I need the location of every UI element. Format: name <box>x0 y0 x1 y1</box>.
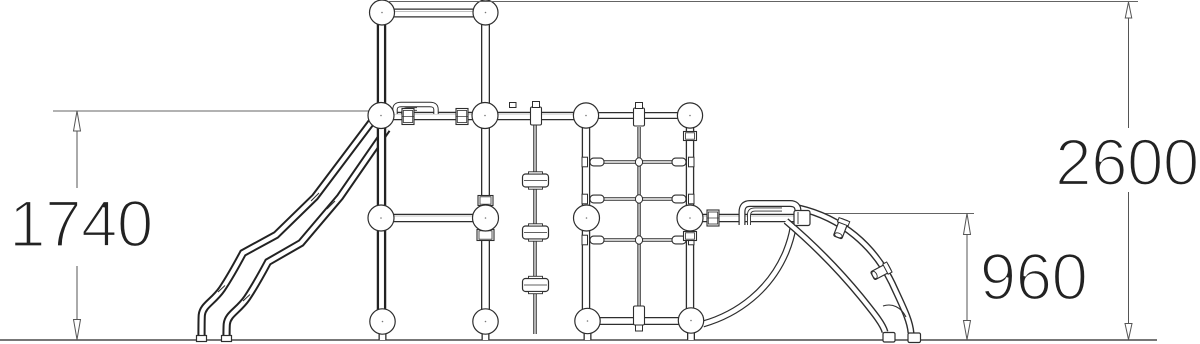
net rod knot 2 <box>635 195 642 203</box>
net rod knot 1 <box>635 158 642 166</box>
dimension text 960 <box>980 240 1088 313</box>
clamp rear post upper <box>478 196 493 206</box>
tower rear post <box>481 13 490 321</box>
net left post <box>582 116 591 322</box>
arch handle inner line <box>749 210 782 226</box>
disc 2 <box>523 224 549 241</box>
foot stub net left <box>584 330 592 340</box>
ball mid net-right <box>677 205 703 231</box>
arch peg lower <box>870 262 892 281</box>
slide foot cap left <box>197 336 207 342</box>
dimension line 2600 <box>1125 2 1132 340</box>
clamp rear post lower <box>477 230 494 241</box>
reference line 1740 level <box>53 110 381 112</box>
disc 1 <box>523 172 549 189</box>
ball platform rear <box>472 103 498 129</box>
platform bar <box>381 114 586 116</box>
net right post <box>686 116 695 321</box>
net top bar <box>586 112 690 119</box>
arch rail cap far <box>908 333 921 343</box>
clamp right post below platform <box>684 132 697 141</box>
ball ground rear <box>473 309 498 334</box>
tower front post (heavy) <box>377 13 387 321</box>
ball platform front <box>368 103 394 129</box>
bolt on platform bar <box>510 103 517 108</box>
net middle rod <box>638 127 640 308</box>
slide rail right <box>227 129 388 339</box>
clamp right post below mid ball <box>684 232 697 241</box>
arch rail cap near <box>883 333 895 343</box>
dimension line 1740 <box>74 111 81 340</box>
arch bar sleeve <box>794 211 810 226</box>
clamp on arch bar <box>707 210 719 226</box>
svg-text:2600: 2600 <box>1055 126 1199 199</box>
svg-text:1740: 1740 <box>9 187 153 260</box>
ball platform net-left <box>573 103 598 128</box>
foot stub tower rear <box>482 330 490 340</box>
clamp platform bar 1 <box>402 109 414 125</box>
ball mid rear <box>473 205 499 231</box>
dimension line 960 <box>964 214 971 340</box>
net rung 2 <box>582 194 694 204</box>
dimension text 2600 <box>1055 126 1199 199</box>
arch handle loop <box>742 204 798 226</box>
middle bar tower <box>381 216 486 218</box>
ball mid net-left <box>574 205 600 231</box>
slide rail joint ticks <box>218 193 335 301</box>
ball top rear <box>473 0 498 25</box>
tower top bar <box>382 12 486 14</box>
slide entry handle loop <box>395 105 436 115</box>
slide entry inner elbow <box>403 109 417 114</box>
ball ground front <box>370 309 395 334</box>
ball ground net-left <box>575 308 600 333</box>
disc pole hanger clamp <box>531 102 542 126</box>
dimension text 1740 <box>9 187 153 260</box>
net rod top clamp <box>634 103 645 127</box>
top reference line (2600 level) <box>388 1 1138 3</box>
top reference line overlay <box>388 1 1138 3</box>
ground line <box>0 339 1157 341</box>
foot stub net right <box>687 330 695 340</box>
disc pole rod <box>534 125 536 334</box>
slide rail left <box>202 120 374 339</box>
net bottom bar <box>588 317 692 325</box>
foot stub tower front <box>379 330 387 340</box>
clamp platform bar 2 <box>456 109 468 125</box>
ball platform net-right <box>677 103 702 128</box>
arch rail far <box>799 208 911 333</box>
ball ground net-right <box>678 308 703 333</box>
slide foot cap right <box>222 336 232 342</box>
net rung 1 <box>582 157 694 167</box>
arch bar from ball to loop <box>690 216 803 218</box>
arch peg upper <box>832 218 849 240</box>
net rod bottom clamp <box>634 306 645 331</box>
reference line 960 level <box>800 213 974 215</box>
disc 3 <box>523 276 549 293</box>
ball top front <box>370 0 395 25</box>
net rod knot 3 <box>635 236 642 244</box>
arch support arc <box>703 228 793 324</box>
net rung 3 <box>582 235 694 245</box>
arch rail near <box>786 221 885 332</box>
svg-text:960: 960 <box>980 240 1088 313</box>
ball mid front <box>368 205 394 231</box>
arch bottom web <box>883 305 906 317</box>
